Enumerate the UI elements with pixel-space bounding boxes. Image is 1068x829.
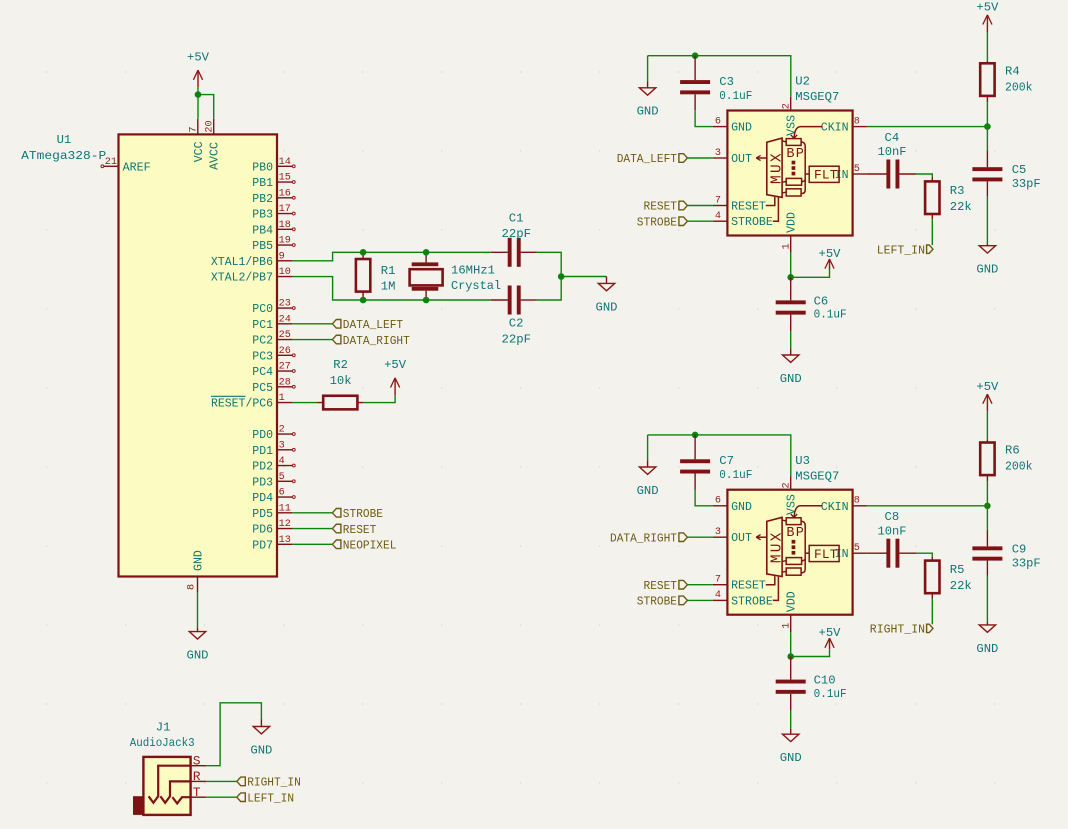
U3 internal cascade line	[801, 521, 805, 573]
ground symbol below U1	[197, 627, 199, 631]
svg-text:+5V: +5V	[819, 626, 842, 640]
U2 internal MUX trapezoid	[767, 138, 782, 197]
U2 pin 8 CKIN	[853, 126, 867, 128]
svg-text:2: 2	[781, 103, 792, 109]
J1 sleeve contact	[149, 766, 191, 803]
junction rail C7	[692, 432, 699, 439]
svg-text:BP: BP	[786, 147, 805, 162]
U1 pin 26 PC3	[277, 354, 292, 356]
wire +5V to VCC	[197, 87, 199, 119]
svg-text:18: 18	[279, 220, 291, 231]
hierarchical label RESET	[679, 201, 688, 210]
svg-text:J1: J1	[156, 720, 171, 734]
svg-text:RIGHT_IN: RIGHT_IN	[247, 776, 301, 790]
svg-text:PD6: PD6	[252, 524, 273, 537]
junction crystal top	[423, 249, 430, 256]
wire PD7 to NEOPIXEL label	[292, 543, 332, 545]
IC U2 body	[727, 111, 852, 236]
+5V power symbol at R4	[986, 15, 988, 32]
U1 pin 25 PC2	[277, 339, 292, 341]
svg-text:21: 21	[105, 157, 117, 168]
svg-text:PD4: PD4	[252, 492, 273, 505]
wire J1 tip to LEFT_IN	[206, 796, 237, 798]
wire DATA_LEFT to U2 OUT	[687, 157, 713, 159]
svg-text:T: T	[193, 785, 201, 800]
wire U2 CKIN to divider	[867, 126, 988, 128]
wire U3 VDD down	[790, 632, 792, 656]
svg-text:GND: GND	[976, 642, 998, 656]
svg-text:C3: C3	[719, 75, 734, 89]
capacitor C7 plates	[680, 459, 710, 463]
wire RESET label to U3	[687, 584, 713, 586]
wire J1 sleeve to ground	[206, 703, 261, 766]
svg-text:RIGHT_IN: RIGHT_IN	[870, 623, 925, 637]
svg-text:RESET: RESET	[644, 579, 678, 593]
wire U3 CKIN to divider	[867, 505, 988, 507]
+5V power symbol at R2	[394, 378, 396, 396]
svg-text:PC4: PC4	[252, 366, 273, 379]
U2 internal OUT arrow	[756, 157, 767, 159]
svg-text:DATA_LEFT: DATA_LEFT	[617, 152, 677, 166]
svg-text:RESET: RESET	[343, 523, 377, 537]
junction VDD	[787, 274, 794, 281]
svg-text:0.1uF: 0.1uF	[719, 468, 752, 482]
capacitor C4 plates	[886, 160, 890, 189]
wire PD5 to STROBE label	[292, 512, 332, 514]
ground symbol divider	[986, 623, 988, 625]
svg-text:PC2: PC2	[252, 335, 273, 348]
svg-text:+5V: +5V	[187, 50, 210, 64]
wire top rail U2	[648, 56, 791, 97]
svg-text:MUX: MUX	[769, 530, 785, 563]
svg-text:33pF: 33pF	[1012, 177, 1041, 191]
svg-text:+5V: +5V	[976, 1, 999, 15]
svg-text:RESET: RESET	[731, 201, 766, 214]
U2 internal cascade line	[801, 142, 805, 194]
wire RESET/PC6 to R2	[292, 402, 317, 404]
wire C7 to U3 GND pin	[695, 490, 713, 506]
svg-text:CKIN: CKIN	[821, 501, 849, 514]
wire XTAL1 to top rail	[292, 252, 491, 260]
svg-text:GND: GND	[780, 372, 802, 386]
svg-text:S: S	[193, 753, 201, 768]
capacitor C3	[694, 56, 696, 80]
svg-text:0.1uF: 0.1uF	[814, 687, 847, 701]
svg-text:Crystal: Crystal	[451, 279, 501, 293]
U1 pin 4 PD2	[277, 465, 292, 467]
resistor R4 body	[980, 63, 994, 96]
svg-text:27: 27	[279, 362, 291, 373]
resistor R5 body	[925, 561, 939, 594]
resistor R6 body	[980, 443, 994, 476]
svg-text:PC0: PC0	[252, 303, 273, 316]
J1 ring contact	[160, 781, 190, 802]
svg-text:2: 2	[279, 425, 285, 436]
svg-text:200k: 200k	[1005, 80, 1033, 94]
U3 internal filter block top	[786, 518, 801, 525]
U1 pin 16 PB2	[277, 197, 292, 199]
U3 pin 1 VDD	[790, 615, 792, 632]
svg-text:10nF: 10nF	[878, 145, 907, 159]
svg-text:R2: R2	[333, 358, 348, 372]
svg-text:VDD: VDD	[786, 591, 799, 612]
ground symbol at J1	[260, 720, 262, 727]
wire riser to ground	[561, 276, 606, 278]
svg-text:22pF: 22pF	[502, 227, 532, 241]
U2 internal filter block bottom	[786, 189, 801, 196]
U1 pin 8 GND	[197, 577, 199, 593]
junction R1 top	[360, 249, 367, 256]
crystal Y1 16MHz	[425, 252, 427, 262]
ground symbol rail	[647, 81, 649, 88]
capacitor C9 plates	[972, 546, 1002, 550]
J1 pin S	[191, 765, 207, 767]
svg-text:4: 4	[279, 456, 285, 467]
resistor R3 body	[925, 181, 939, 214]
hierarchical label RIGHT_IN	[237, 777, 246, 786]
capacitor C2	[491, 299, 508, 301]
+5V power symbol at R6	[986, 394, 988, 411]
+5V power symbol at U2 VDD	[829, 259, 831, 270]
+5V power symbol above U1	[197, 70, 199, 87]
resistor R1	[362, 252, 364, 259]
U1 pin 15 PB1	[277, 181, 292, 183]
svg-text:GND: GND	[250, 743, 272, 757]
svg-text:LEFT_IN: LEFT_IN	[247, 791, 294, 805]
hierarchical label RESET	[332, 524, 341, 533]
svg-text:STROBE: STROBE	[731, 595, 773, 608]
svg-text:STROBE: STROBE	[343, 507, 383, 521]
U3 pin 8 CKIN	[853, 505, 867, 507]
svg-text:R3: R3	[950, 184, 965, 198]
svg-text:28: 28	[279, 377, 291, 388]
svg-text:R1: R1	[381, 264, 396, 278]
svg-text:NEOPIXEL: NEOPIXEL	[343, 539, 397, 553]
wire C4 to R3	[916, 174, 932, 178]
svg-text:U2: U2	[795, 75, 810, 89]
resistor R6	[986, 411, 988, 440]
junction right riser	[558, 273, 565, 280]
resistor R2	[318, 402, 324, 404]
svg-text:+5V: +5V	[384, 358, 407, 372]
svg-text:U1: U1	[57, 133, 72, 147]
U3 pin 3 OUT	[713, 536, 728, 538]
svg-text:GND: GND	[637, 105, 659, 119]
svg-text:C8: C8	[885, 510, 900, 524]
svg-text:200k: 200k	[1005, 460, 1033, 474]
wire U1 GND pin to ground	[197, 592, 199, 627]
U2 internal RESET link	[766, 197, 775, 206]
svg-text:16MHz1: 16MHz1	[451, 264, 495, 278]
U1 pin 12 PD6	[277, 528, 292, 530]
hierarchical label DATA_RIGHT	[679, 533, 688, 542]
svg-text:C7: C7	[719, 454, 734, 468]
svg-text:C5: C5	[1012, 163, 1027, 177]
svg-text:9: 9	[279, 251, 285, 262]
U3 internal MUX trapezoid	[767, 517, 782, 576]
svg-text:OUT: OUT	[731, 532, 752, 545]
resistor R4	[986, 32, 988, 61]
svg-text:CKIN: CKIN	[821, 122, 849, 135]
svg-text:AVCC: AVCC	[209, 142, 222, 170]
svg-text:0.1uF: 0.1uF	[719, 89, 752, 103]
svg-text:22k: 22k	[950, 579, 972, 593]
svg-text:PB1: PB1	[252, 177, 273, 190]
wire PD6 to RESET label	[292, 528, 332, 530]
wire rail to ground	[647, 435, 649, 461]
ground symbol divider	[986, 243, 988, 245]
U1 pin 7 VCC	[197, 119, 199, 135]
svg-text:MUX: MUX	[769, 151, 785, 184]
svg-text:PD3: PD3	[252, 476, 273, 489]
svg-text:VSS: VSS	[786, 115, 799, 136]
wire top rail U3	[648, 435, 791, 476]
wire PC1 to DATA_LEFT label	[292, 323, 332, 325]
J1 pin R	[191, 780, 207, 782]
svg-text:0.1uF: 0.1uF	[814, 308, 847, 322]
U1 pin 1 RESET/PC6	[277, 402, 292, 404]
svg-text:14: 14	[279, 157, 291, 168]
capacitor C2 plates	[508, 286, 512, 315]
svg-text:4: 4	[715, 211, 721, 222]
svg-text:VSS: VSS	[786, 494, 799, 515]
capacitor C8 plates	[886, 539, 890, 568]
U1 pin 6 PD4	[277, 496, 292, 498]
svg-text:15: 15	[279, 173, 291, 184]
svg-text:16: 16	[279, 188, 291, 199]
svg-text:MSGEQ7: MSGEQ7	[795, 90, 839, 104]
U1 pin 18 PB4	[277, 228, 292, 230]
wire J1 ring to RIGHT_IN	[206, 780, 237, 782]
svg-text:26: 26	[279, 346, 291, 357]
junction at VCC branch	[195, 91, 202, 98]
svg-text:C6: C6	[814, 294, 829, 308]
svg-text:FLT: FLT	[814, 547, 838, 562]
svg-text:+5V: +5V	[819, 247, 842, 261]
capacitor C7	[694, 435, 696, 459]
U2 internal filter block middle	[786, 178, 801, 185]
wire RESET label to U2	[687, 205, 713, 207]
capacitor C3 plates	[680, 80, 710, 84]
U2 pin 6 GND	[713, 126, 728, 128]
svg-text:24: 24	[279, 314, 291, 325]
svg-text:3: 3	[715, 527, 721, 538]
resistor R1 body	[356, 259, 370, 292]
wire +5V branch to AVCC	[198, 95, 214, 119]
wire rail to ground	[647, 56, 649, 81]
capacitor C1 plates	[508, 238, 512, 267]
U1 pin 10 XTAL2/PB7	[277, 276, 292, 278]
svg-text:GND: GND	[637, 484, 659, 498]
svg-text:6: 6	[715, 496, 721, 507]
U3 internal filter block middle	[786, 558, 801, 565]
svg-text:AudioJack3: AudioJack3	[130, 736, 195, 750]
wire C10 to ground	[790, 711, 792, 729]
svg-text:17: 17	[279, 204, 291, 215]
U3 pin 5 IN	[853, 552, 867, 554]
wire R2 to +5V	[363, 395, 395, 402]
svg-text:5: 5	[854, 164, 860, 175]
hierarchical label LEFT_IN	[927, 245, 933, 253]
svg-text:2: 2	[781, 482, 792, 488]
wire C3 to U2 GND pin	[695, 110, 713, 126]
U1 pin 11 PD5	[277, 512, 292, 514]
capacitor C6 plates	[776, 300, 806, 304]
svg-text:20: 20	[204, 120, 215, 132]
U3 internal CKIN link	[794, 506, 822, 517]
U1 pin 28 PC5	[277, 386, 292, 388]
capacitor C6	[790, 277, 792, 300]
U2 internal FLT box	[809, 166, 839, 182]
hierarchical label DATA_LEFT	[332, 320, 341, 329]
U2 pin 7 RESET	[713, 205, 728, 207]
connector J1 body	[143, 757, 190, 815]
capacitor C10	[790, 657, 792, 680]
svg-text:PD2: PD2	[252, 461, 273, 474]
J1 tip contact	[172, 797, 190, 803]
svg-text:XTAL2/PB7: XTAL2/PB7	[211, 272, 273, 285]
svg-text:OUT: OUT	[731, 153, 752, 166]
svg-text:C4: C4	[885, 131, 900, 145]
svg-text:PB0: PB0	[252, 161, 273, 174]
svg-text:R5: R5	[950, 563, 965, 577]
svg-text:PB4: PB4	[252, 224, 273, 237]
svg-text:C9: C9	[1012, 542, 1027, 556]
svg-text:7: 7	[715, 195, 721, 206]
ground symbol at C10	[790, 729, 792, 735]
svg-text:3: 3	[279, 440, 285, 451]
svg-text:1: 1	[781, 243, 792, 249]
svg-text:7: 7	[189, 126, 200, 132]
svg-text:PB5: PB5	[252, 240, 273, 253]
svg-text:VDD: VDD	[786, 212, 799, 233]
U3 internal STROBE link	[773, 577, 779, 601]
svg-text:25: 25	[279, 330, 291, 341]
ground symbol rail	[647, 460, 649, 467]
U2 pin 2 VSS	[790, 97, 792, 111]
resistor R3	[931, 178, 933, 182]
U3 pin 7 RESET	[713, 584, 728, 586]
svg-text:VCC: VCC	[193, 141, 206, 162]
svg-text:1M: 1M	[381, 280, 396, 294]
svg-text:33pF: 33pF	[1012, 556, 1041, 570]
wire XTAL2 to bottom rail	[292, 277, 491, 300]
J1 sleeve block	[133, 796, 143, 815]
svg-text:1: 1	[279, 393, 285, 404]
svg-text:12: 12	[279, 519, 291, 530]
svg-text:PD7: PD7	[252, 539, 273, 552]
hierarchical label STROBE	[332, 509, 341, 518]
U1 pin 17 PB3	[277, 213, 292, 215]
wire PC2 to DATA_RIGHT label	[292, 339, 332, 341]
U3 internal OUT arrow	[756, 536, 767, 538]
wire C6 to ground	[790, 331, 792, 349]
U3 pin 4 STROBE	[713, 599, 728, 601]
U2 pin 1 VDD	[790, 236, 792, 253]
wire C1 to right riser	[537, 252, 562, 300]
svg-text:AREF: AREF	[123, 161, 151, 174]
U1 pin 23 PC0	[277, 307, 292, 309]
svg-text:RESET: RESET	[644, 200, 678, 214]
ground symbol at C6	[790, 350, 792, 356]
svg-text:22pF: 22pF	[502, 332, 532, 346]
svg-text:ATmega328-P: ATmega328-P	[21, 149, 106, 163]
svg-text:8: 8	[854, 496, 860, 507]
U1 pin 20 AVCC	[213, 119, 215, 135]
hierarchical label RESET	[679, 580, 688, 589]
svg-text:C2: C2	[509, 317, 524, 331]
wire VDD to +5V	[791, 649, 830, 656]
capacitor C1	[491, 251, 508, 253]
hierarchical label NEOPIXEL	[332, 540, 341, 549]
wire U2 VDD down	[790, 253, 792, 277]
svg-text:C1: C1	[509, 211, 524, 225]
svg-text:6: 6	[279, 488, 285, 499]
svg-text:22k: 22k	[950, 200, 972, 214]
svg-text:BP: BP	[786, 526, 805, 541]
svg-text:STROBE: STROBE	[731, 216, 773, 229]
U3 pin 6 GND	[713, 505, 728, 507]
svg-text:PD0: PD0	[252, 429, 273, 442]
hierarchical label LEFT_IN	[237, 793, 246, 802]
wire R3 to LEFT_IN label	[931, 219, 933, 245]
svg-text:GND: GND	[780, 751, 802, 765]
U1 pin 3 PD1	[277, 449, 292, 451]
U2 pin 4 STROBE	[713, 220, 728, 222]
U3 internal FLT box link	[805, 552, 809, 554]
wire C8 to R5	[916, 553, 932, 557]
svg-text:PC1: PC1	[252, 319, 273, 332]
hierarchical label DATA_RIGHT	[332, 335, 341, 344]
capacitor C4	[867, 173, 887, 175]
svg-text:C10: C10	[814, 674, 836, 688]
U2 pin 3 OUT	[713, 157, 728, 159]
svg-text:PB2: PB2	[252, 193, 273, 206]
junction VDD	[787, 653, 794, 660]
junction CKIN divider	[984, 503, 991, 510]
wire VDD to +5V	[791, 270, 830, 277]
svg-text:3: 3	[715, 148, 721, 159]
U2 internal FLT box link	[805, 173, 809, 175]
hierarchical label DATA_LEFT	[679, 154, 688, 163]
U1 pin 27 PC4	[277, 370, 292, 372]
resistor R5	[931, 557, 933, 561]
svg-text:23: 23	[279, 299, 291, 310]
svg-text:R4: R4	[1005, 65, 1020, 79]
wire DATA_RIGHT to U3 OUT	[687, 536, 713, 538]
U3 internal filter block bottom	[786, 568, 801, 575]
junction R1 bottom	[360, 297, 367, 304]
svg-text:U3: U3	[795, 454, 810, 468]
svg-text:GND: GND	[596, 300, 618, 314]
U3 internal dots	[792, 540, 796, 544]
svg-text:XTAL1/PB6: XTAL1/PB6	[211, 256, 273, 269]
U1 pin 19 PB5	[277, 244, 292, 246]
svg-text:DATA_RIGHT: DATA_RIGHT	[610, 531, 677, 545]
svg-text:10: 10	[279, 267, 291, 278]
svg-text:PC3: PC3	[252, 350, 273, 363]
svg-text:LEFT_IN: LEFT_IN	[877, 243, 925, 257]
svg-text:5: 5	[279, 472, 285, 483]
U2 internal CKIN link	[794, 127, 822, 138]
capacitor C5	[986, 127, 988, 151]
U1 pin 14 PB0	[277, 165, 292, 167]
J1 pin T	[191, 796, 207, 798]
svg-text:STROBE: STROBE	[637, 595, 677, 609]
IC U1 body	[119, 134, 278, 576]
svg-text:8: 8	[854, 116, 860, 127]
hierarchical label RIGHT_IN	[927, 624, 933, 632]
